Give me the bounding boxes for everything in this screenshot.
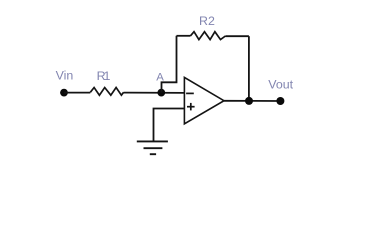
wire xyxy=(124,92,185,94)
ground xyxy=(137,141,168,154)
wire xyxy=(225,35,249,37)
op-amp U1 xyxy=(184,77,224,123)
label Vout xyxy=(268,78,293,92)
svg-text:Vin: Vin xyxy=(56,69,74,83)
label R2 xyxy=(199,14,215,28)
junction xyxy=(245,97,253,105)
inverting input - xyxy=(186,92,194,94)
label A xyxy=(156,72,164,84)
resistor R1 xyxy=(90,88,123,96)
terminal Vout xyxy=(276,97,284,105)
node A xyxy=(157,89,165,97)
wire xyxy=(64,92,90,94)
non-inverting input + xyxy=(187,103,195,111)
label R1 xyxy=(97,69,111,83)
wire xyxy=(154,109,185,142)
resistor R2 xyxy=(191,32,226,40)
wire xyxy=(177,35,191,37)
wire xyxy=(162,36,177,93)
label Vin xyxy=(56,69,74,83)
svg-text:R2: R2 xyxy=(199,14,215,28)
wire xyxy=(224,100,280,102)
wire xyxy=(248,36,250,101)
svg-text:R1: R1 xyxy=(97,69,111,83)
terminal Vin xyxy=(60,89,68,97)
svg-text:Vout: Vout xyxy=(268,78,293,92)
